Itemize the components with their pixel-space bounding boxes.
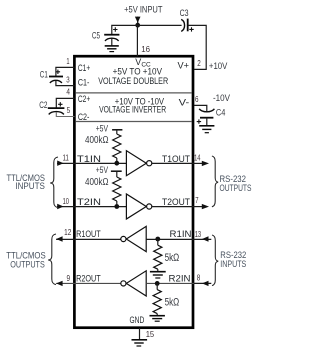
wire pin 11 T1IN (57, 162, 127, 164)
wire pin 13 stub (194, 238, 211, 240)
svg-text:400kΩ: 400kΩ (85, 177, 109, 188)
wire resistor to T2IN node (116, 201, 118, 207)
svg-text:C4: C4 (216, 107, 226, 118)
svg-text:C5: C5 (92, 30, 100, 41)
svg-text:C1+: C1+ (78, 63, 90, 73)
svg-text:INPUTS: INPUTS (220, 259, 246, 269)
brace TTL/CMOS inputs (50, 157, 58, 208)
svg-text:5kΩ: 5kΩ (165, 297, 180, 309)
brace RS-232 inputs (212, 235, 218, 286)
svg-text:2: 2 (197, 58, 201, 68)
ground (R1 5k) (150, 272, 166, 278)
svg-text:+5V: +5V (96, 165, 108, 175)
svg-text:5: 5 (67, 105, 71, 115)
svg-text:1: 1 (66, 56, 69, 66)
svg-text:OUTPUTS: OUTPUTS (10, 259, 45, 269)
wire R1 bubble to R1OUT (75, 238, 121, 240)
input arrow into +5V node (135, 17, 141, 23)
wire pin 7 stub (194, 206, 202, 208)
wire pin 3 (C1-) (56, 81, 75, 86)
op-amp T2 driver triangle (126, 194, 146, 219)
resistor 400k (T2) (113, 177, 121, 201)
svg-text:T2IN: T2IN (77, 197, 101, 207)
svg-text:GND: GND (130, 315, 145, 325)
ground (R2 5k) (150, 316, 165, 322)
wire resistor to T1IN node (116, 158, 118, 163)
separator line (below voltage inverter section) (76, 121, 192, 123)
svg-text:6: 6 (195, 94, 199, 104)
resistor 400k (T1) (113, 134, 121, 158)
arrow into pin 11 (57, 161, 63, 166)
svg-text:+5V INPUT: +5V INPUT (124, 5, 163, 16)
capacitor C5 (92, 27, 120, 46)
svg-text:14: 14 (194, 153, 201, 163)
capacitor C2 (39, 100, 64, 114)
op-amp T1 driver triangle (126, 151, 146, 176)
wire pin 5 (C2-) (56, 112, 74, 117)
svg-text:400kΩ: 400kΩ (85, 135, 109, 146)
svg-text:12: 12 (64, 227, 71, 237)
arrow into pin 13 (202, 236, 209, 241)
wire R2IN (146, 282, 194, 284)
ground (below C4) (199, 126, 214, 133)
wire pin 15 stub (139, 328, 141, 340)
wire pin 9 R2OUT (56, 282, 74, 284)
svg-text:5kΩ: 5kΩ (165, 252, 180, 264)
svg-text:OUTPUTS: OUTPUTS (220, 183, 252, 193)
wire pin 4 (C2+) (56, 98, 74, 108)
op-amp R2 receiver triangle (126, 271, 146, 296)
svg-text:16: 16 (141, 44, 150, 54)
arrow out of pin 14 (202, 161, 209, 166)
arrow out of pin 9 (56, 281, 63, 286)
svg-text:7: 7 (195, 195, 198, 205)
svg-text:C2-: C2- (78, 112, 90, 122)
arrow out of pin 12 (56, 236, 63, 241)
svg-text:C2: C2 (39, 100, 47, 111)
wire R2 bubble to R2OUT (75, 282, 121, 284)
svg-text:15: 15 (146, 329, 155, 339)
wire T1OUT (152, 162, 194, 164)
node R2IN junction (155, 281, 160, 286)
wire pin 10 T2IN (57, 206, 127, 208)
svg-text:R1OUT: R1OUT (76, 229, 101, 240)
svg-text:V+: V+ (178, 60, 190, 71)
wire R1IN (146, 238, 194, 240)
svg-text:+5V TO +10V: +5V TO +10V (113, 66, 162, 76)
op-amp R1 receiver triangle (126, 226, 146, 251)
svg-text:8: 8 (197, 272, 201, 282)
node T2IN junction (114, 204, 119, 209)
svg-text:11: 11 (63, 153, 69, 163)
arrow into pin 10 (57, 204, 63, 209)
wire pin 14 stub (194, 162, 202, 164)
node T1IN junction (114, 161, 119, 166)
svg-text:+5V: +5V (96, 123, 108, 133)
wire +5V rail right to C3 (138, 24, 182, 26)
resistor 5k (R1) (157, 239, 159, 245)
svg-text:VOLTAGE DOUBLER: VOLTAGE DOUBLER (98, 76, 168, 86)
svg-text:3: 3 (66, 75, 70, 85)
svg-text:-10V: -10V (213, 93, 231, 104)
svg-text:VOLTAGE INVERTER: VOLTAGE INVERTER (99, 105, 166, 115)
capacitor C3 (180, 8, 194, 32)
ground (pin 15) (132, 340, 148, 346)
svg-text:10: 10 (63, 196, 70, 206)
svg-text:C1-: C1- (78, 78, 90, 88)
op-amp U1 IC body (RS-232 transceiver) (74, 56, 193, 328)
svg-text:C1: C1 (40, 70, 48, 81)
wire pin 12 R1OUT (56, 238, 74, 240)
brace TTL/CMOS outputs (48, 234, 56, 285)
resistor 5k (R2) (156, 283, 158, 289)
wire +5V rail left to C5 (112, 25, 138, 34)
svg-text:13: 13 (195, 229, 202, 239)
ground (below C5) (105, 46, 119, 52)
svg-text:R1IN: R1IN (170, 229, 192, 240)
svg-text:4: 4 (66, 87, 70, 97)
capacitor C1 (40, 70, 63, 83)
svg-text:C2+: C2+ (78, 94, 90, 104)
arrow out of pin 7 (202, 204, 209, 209)
wire 5k to ground (156, 314, 158, 316)
wire C3 to V+ pin 2 (188, 25, 207, 69)
wire pin 8 stub (194, 282, 211, 284)
wire pin 1 (C1+) (56, 67, 75, 76)
capacitor C4 (197, 107, 226, 126)
arrow into pin 8 (202, 281, 209, 286)
svg-text:R2OUT: R2OUT (76, 273, 101, 284)
wire pin 6 (V-) to C4 (194, 105, 207, 111)
svg-text:+10V: +10V (209, 61, 228, 72)
wire pin 16 stub (136, 25, 138, 56)
svg-text:T1OUT: T1OUT (162, 154, 190, 164)
+5V rail T-bar (T1) (112, 129, 122, 131)
svg-text:INPUTS: INPUTS (15, 181, 45, 191)
node R1IN junction (155, 237, 160, 242)
svg-text:T2OUT: T2OUT (162, 197, 190, 207)
node +5V input junction (135, 23, 140, 28)
svg-text:9: 9 (67, 273, 71, 283)
separator line (below voltage doubler section) (76, 92, 192, 94)
svg-text:C3: C3 (180, 8, 189, 19)
svg-text:T1IN: T1IN (77, 154, 101, 164)
svg-text:R2IN: R2IN (169, 273, 191, 284)
+5V rail T-bar (T2) (111, 170, 122, 172)
wire 5k to ground (157, 269, 159, 272)
svg-text:V-: V- (179, 97, 190, 108)
wire T2OUT (152, 206, 194, 208)
brace RS-232 outputs (212, 156, 218, 207)
